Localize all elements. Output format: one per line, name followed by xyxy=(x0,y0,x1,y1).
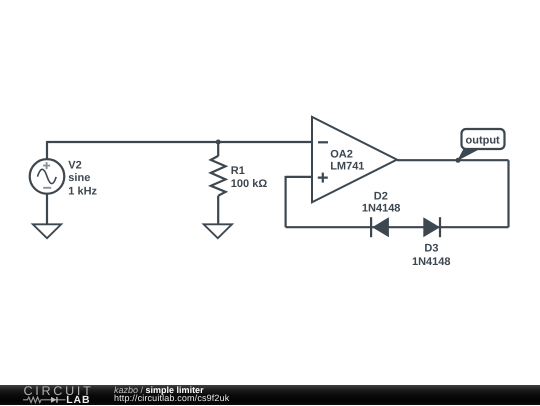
wire: rail to R1 xyxy=(217,142,219,156)
wire: op-amp output xyxy=(397,159,509,161)
output flag pointer wedge xyxy=(457,149,480,161)
op-amp OA2 triangle xyxy=(312,117,397,202)
footer bar xyxy=(0,385,540,405)
logo doodle (wire-resistor-diode) xyxy=(23,396,69,404)
wire: V2 top lead xyxy=(46,142,48,159)
wire: main horizontal rail xyxy=(46,141,312,143)
resistor R1 xyxy=(211,156,226,196)
footer url xyxy=(114,393,229,403)
svg-text:output: output xyxy=(466,134,501,146)
footer title: kazbo / simple limiter xyxy=(114,385,204,395)
svg-text:1N4148: 1N4148 xyxy=(412,256,451,268)
wire: feedback to + input xyxy=(286,176,312,178)
diode D3 (pointing right) xyxy=(423,217,440,237)
node: output flag anchor dot xyxy=(456,158,461,163)
label V2 / sine / 1 kHz xyxy=(68,159,97,197)
svg-text:D3: D3 xyxy=(424,243,438,255)
label R1 / 100 kOhm xyxy=(231,165,268,190)
output flag box xyxy=(462,129,505,149)
svg-text:LM741: LM741 xyxy=(330,160,364,172)
label OA2 / LM741 xyxy=(330,148,364,172)
voltage source V2 xyxy=(30,159,65,194)
op-amp plus input marker xyxy=(318,173,328,183)
ground under V2 xyxy=(33,224,61,238)
svg-text:1 kHz: 1 kHz xyxy=(68,185,97,197)
label D2 / 1N4148 xyxy=(362,191,401,215)
logo LAB xyxy=(66,395,90,406)
svg-text:100 kΩ: 100 kΩ xyxy=(231,178,268,190)
wire: right feedback vertical xyxy=(507,160,509,227)
svg-text:R1: R1 xyxy=(231,165,245,177)
svg-text:OA2: OA2 xyxy=(330,148,353,160)
op-amp minus input marker xyxy=(318,141,328,143)
node: junction at R1 top xyxy=(216,140,221,145)
logo CIRCUIT xyxy=(24,384,94,398)
svg-text:sine: sine xyxy=(68,172,90,184)
wire: feedback bottom rail xyxy=(286,226,509,228)
wire: R1 to ground xyxy=(217,196,219,225)
wire: V2 bottom lead xyxy=(46,194,48,225)
ground under R1 xyxy=(204,224,232,238)
label D3 / 1N4148 xyxy=(412,243,451,268)
wire: feedback left vertical xyxy=(285,176,287,227)
svg-text:V2: V2 xyxy=(68,159,81,171)
svg-text:D2: D2 xyxy=(374,191,388,203)
svg-text:1N4148: 1N4148 xyxy=(362,203,401,215)
diode D2 (pointing left) xyxy=(371,217,389,237)
